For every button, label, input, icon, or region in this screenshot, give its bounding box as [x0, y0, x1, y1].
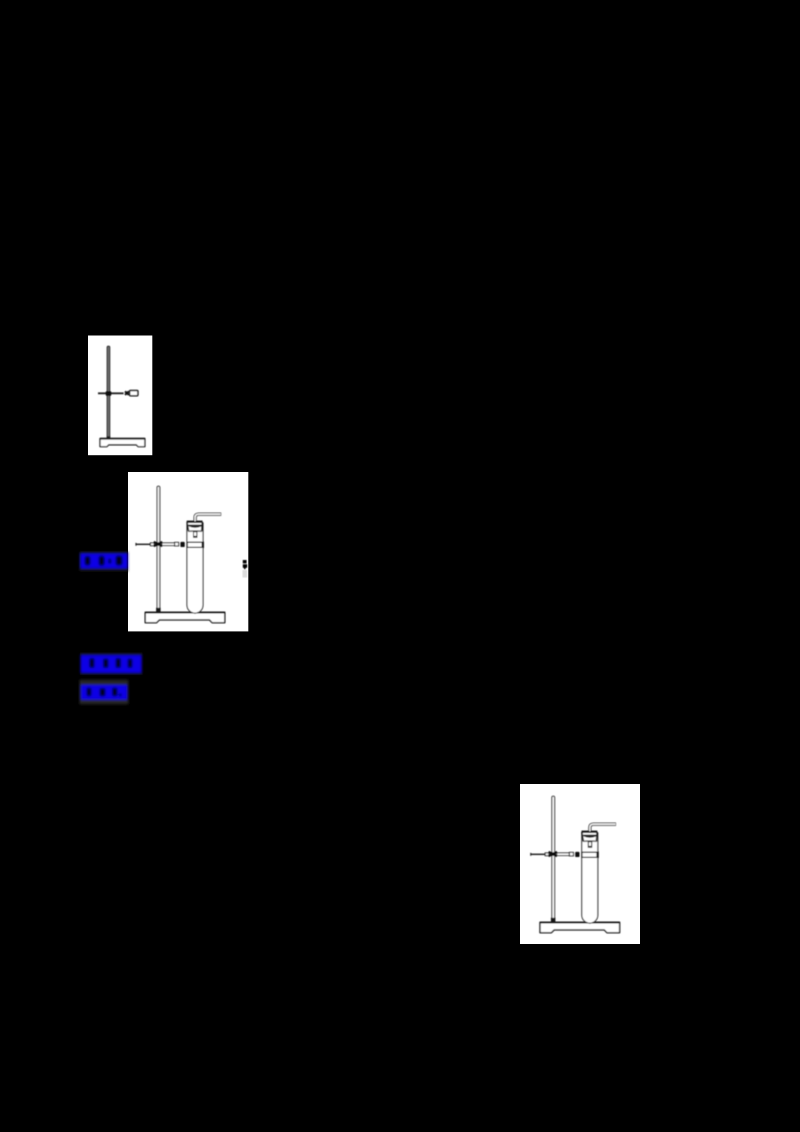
- figure 2 stand drawing: [136, 486, 225, 623]
- faint smudge below glyph: [243, 570, 248, 578]
- blue link text 3 with grey highlight: [80, 680, 129, 704]
- blue link text 2: [80, 652, 143, 675]
- fig1 clamp bar: [98, 392, 124, 394]
- figure 3 stand drawing: [531, 796, 620, 933]
- fig1 rod: [107, 346, 110, 438]
- fig1 clamp knot: [106, 391, 112, 396]
- fig1 rod-base joint: [107, 436, 110, 439]
- fig1 base: [100, 439, 145, 447]
- fig1 holder: [130, 391, 138, 396]
- small glyph at right edge of figure 2: [243, 560, 247, 570]
- figure 1 white panel: [88, 336, 152, 456]
- figure 3 white panel: [520, 784, 640, 944]
- fig1 bolt: [125, 391, 129, 395]
- blue link text 1: [80, 552, 129, 572]
- figure 2 white panel: [128, 472, 248, 631]
